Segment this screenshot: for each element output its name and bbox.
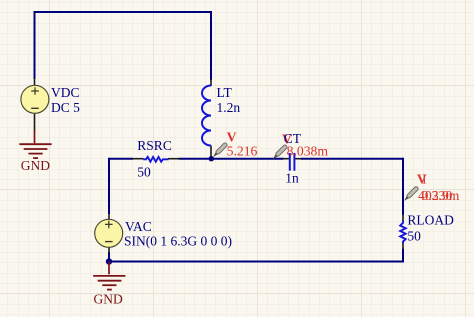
pin LT top bbox=[210, 79, 212, 86]
svg-text:V: V bbox=[227, 130, 237, 145]
ground GND1 under VDC bbox=[19, 130, 51, 158]
wire top rail from VDC to LT bbox=[35, 11, 212, 13]
node junction at LT bottom bbox=[209, 156, 214, 161]
wire VAC bottom to ground junction bbox=[108, 252, 110, 262]
svg-text:50: 50 bbox=[407, 228, 421, 243]
pin VDC top bbox=[34, 78, 36, 86]
pin RSRC right bbox=[168, 158, 180, 160]
probe V at node CT left bbox=[271, 144, 287, 160]
pin RSRC left bbox=[132, 158, 144, 160]
pin RLOAD top bbox=[402, 214, 404, 221]
svg-text:I: I bbox=[422, 172, 427, 187]
pin VDC bottom bbox=[34, 113, 36, 131]
pin CT right bbox=[295, 158, 302, 160]
inductor LT coil bbox=[202, 86, 211, 146]
svg-text:LT: LT bbox=[217, 85, 233, 100]
pin RLOAD bottom bbox=[402, 243, 404, 250]
node junction at VAC bottom bbox=[106, 258, 112, 264]
capacitor CT plates bbox=[290, 153, 295, 171]
svg-text:RSRC: RSRC bbox=[137, 138, 172, 153]
resistor RSRC zigzag bbox=[143, 157, 168, 162]
svg-text:0.230: 0.230 bbox=[422, 188, 453, 203]
svg-text:1.2n: 1.2n bbox=[217, 100, 241, 115]
svg-text:VDC: VDC bbox=[51, 85, 80, 100]
pin VAC bottom bbox=[108, 247, 110, 253]
wire mid rail RSRC to CT bbox=[179, 158, 284, 160]
resistor RLOAD zigzag vertical bbox=[400, 221, 406, 244]
wire VDC top vertical bbox=[34, 11, 36, 79]
svg-text:VAC: VAC bbox=[125, 219, 152, 234]
svg-text:RLOAD: RLOAD bbox=[407, 213, 454, 228]
wire RLOAD bottom vertical bbox=[402, 249, 404, 262]
svg-text:5.216: 5.216 bbox=[227, 144, 258, 159]
voltage source VDC body bbox=[21, 85, 49, 113]
svg-text:GND: GND bbox=[94, 291, 123, 306]
wire mid rail CT to right corner bbox=[301, 158, 404, 160]
wire bottom rail bbox=[109, 261, 404, 263]
probe V at node RLOAD top bbox=[403, 186, 419, 202]
pin CT left bbox=[283, 158, 290, 160]
svg-text:DC 5: DC 5 bbox=[51, 100, 80, 115]
probe V at node LT/RSRC bbox=[211, 142, 227, 158]
wire VAC vertical bbox=[108, 158, 110, 214]
pin VAC top bbox=[108, 214, 110, 220]
wire mid rail left (VAC corner to RSRC) bbox=[110, 158, 133, 160]
ground GND2 under VAC bbox=[93, 262, 125, 290]
voltage source VAC body bbox=[95, 219, 123, 247]
svg-text:GND: GND bbox=[21, 158, 50, 173]
wire LT top vertical bbox=[210, 11, 212, 80]
svg-text:1n: 1n bbox=[285, 170, 299, 185]
pin LT bottom bbox=[210, 146, 212, 159]
svg-text:SIN(0 1 6.3G 0 0 0): SIN(0 1 6.3G 0 0 0) bbox=[124, 234, 232, 249]
wire right vertical to RLOAD bbox=[402, 158, 404, 215]
svg-text:8.038m: 8.038m bbox=[287, 144, 329, 159]
svg-text:50: 50 bbox=[137, 165, 151, 180]
